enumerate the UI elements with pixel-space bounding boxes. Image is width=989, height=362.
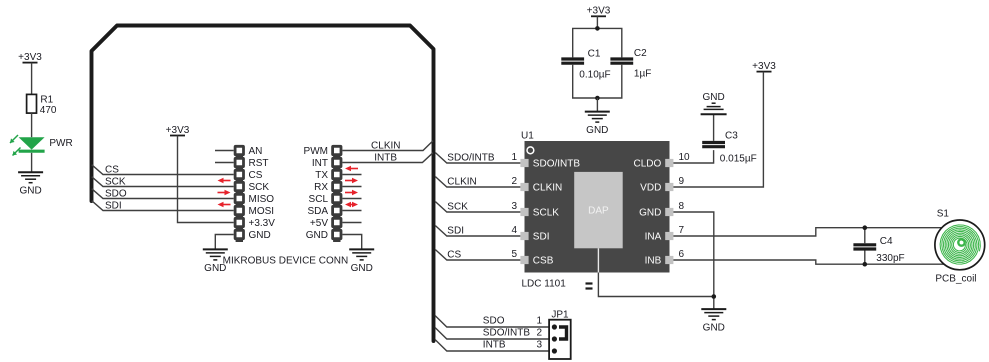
svg-text:RX: RX [314, 182, 328, 193]
stub wire (right header) [342, 174, 361, 176]
wire C3 to flipped ground [713, 114, 715, 141]
svg-text:SCK: SCK [105, 176, 126, 187]
ground (decoupling) [585, 112, 610, 137]
svg-text:JP1: JP1 [551, 310, 569, 321]
svg-text:S1: S1 [937, 209, 950, 220]
svg-text:GND: GND [351, 263, 373, 274]
svg-text:+3V3: +3V3 [166, 125, 190, 136]
svg-text:GND: GND [702, 92, 724, 103]
svg-text:470: 470 [40, 105, 57, 116]
svg-text:INT: INT [312, 158, 328, 169]
svg-text:SCLK: SCLK [533, 208, 559, 219]
wire rail to ground [596, 98, 598, 112]
svg-text:SDO: SDO [483, 316, 505, 327]
wire SDO/INTB (bus to U1) [435, 153, 520, 163]
junction (top rail) [595, 26, 600, 31]
svg-text:CSB: CSB [533, 256, 554, 267]
wire CS (bus to U1) [435, 250, 520, 260]
ground (right header) [349, 249, 374, 274]
junction (DAP/GND) [712, 294, 717, 299]
svg-text:CLKIN: CLKIN [447, 177, 476, 188]
svg-text:1: 1 [511, 152, 517, 163]
svg-text:SDO/INTB: SDO/INTB [533, 159, 581, 170]
U1 right pin names [634, 159, 662, 267]
pin numbers 1-5 [511, 152, 517, 260]
svg-text:INB: INB [645, 256, 662, 267]
svg-text:CS: CS [249, 170, 263, 181]
svg-text:C2: C2 [634, 48, 647, 59]
svg-text:R1: R1 [40, 95, 53, 106]
svg-text:GND: GND [306, 230, 328, 241]
mikrobus right header connector [331, 145, 342, 242]
wire bottom rail C1 C2 [573, 65, 622, 98]
svg-text:TX: TX [315, 170, 328, 181]
left header pin labels [249, 146, 276, 241]
+3V3 power (decoupling) [587, 6, 611, 17]
bus outline (thick board bus) [92, 26, 434, 342]
right header pin labels [304, 146, 329, 241]
ground (LED branch) [18, 172, 43, 197]
red direction arrows (left header) [218, 178, 231, 184]
wire +3V3 to VDD pin9 [673, 72, 763, 187]
svg-text:VDD: VDD [640, 183, 661, 194]
svg-text:GND: GND [639, 208, 661, 219]
svg-text:DAP: DAP [588, 206, 609, 217]
jumper JP1 [549, 310, 571, 360]
svg-text:1µF: 1µF [634, 69, 651, 80]
svg-text:330pF: 330pF [876, 253, 904, 264]
wire +3V3 to +3.3V pin [178, 136, 234, 223]
svg-text:INA: INA [645, 232, 662, 243]
capacitor C2 1uF [610, 48, 651, 80]
svg-text:8: 8 [679, 201, 685, 212]
svg-text:+3V3: +3V3 [752, 61, 776, 72]
wire C4 bottom stub [864, 250, 866, 264]
stub wire RST [215, 162, 234, 164]
JP1 pin numbers [536, 316, 542, 351]
svg-text:SDO/INTB: SDO/INTB [483, 328, 531, 339]
DAP pad [574, 172, 623, 248]
red direction arrows (right header) [345, 166, 358, 172]
op IC U1 LDC1101 body [521, 131, 670, 273]
svg-text:2: 2 [511, 176, 517, 187]
svg-text:GND: GND [586, 125, 608, 136]
wire CLDO pin10 to C3 [673, 150, 713, 163]
svg-text:+5V: +5V [310, 218, 328, 229]
wire SCK (bus to U1) [435, 202, 520, 212]
svg-text:SCK: SCK [249, 182, 270, 193]
+3V3 power (LED branch) [18, 52, 42, 63]
capacitor C1 0.10uF [561, 48, 610, 80]
svg-text:MIKROBUS DEVICE CONN: MIKROBUS DEVICE CONN [223, 255, 349, 266]
svg-text:GND: GND [703, 323, 725, 334]
svg-text:PWM: PWM [304, 146, 328, 157]
svg-text:SCK: SCK [447, 202, 468, 213]
wire GND pin8 down to ground [673, 212, 713, 309]
svg-text:SCL: SCL [309, 194, 329, 205]
wire DAP to ground net [598, 273, 713, 297]
svg-text:1: 1 [536, 316, 542, 327]
wire SCK (bus to left header) [92, 177, 234, 187]
svg-text:INTB: INTB [483, 340, 506, 351]
ground (left header) [203, 249, 228, 274]
stub wire (right header) [342, 186, 361, 188]
svg-text:0.10µF: 0.10µF [579, 69, 610, 80]
wire SDO/INTB (bus to JP1) [435, 328, 554, 340]
svg-text:CLKIN: CLKIN [533, 183, 562, 194]
svg-text:GND: GND [19, 186, 41, 197]
svg-text:LDC 1101: LDC 1101 [522, 278, 567, 289]
wire right header GND pin to ground [342, 235, 361, 250]
wire left header GND pin to ground [215, 235, 233, 250]
LED PWR (green) [10, 135, 73, 156]
svg-text:9: 9 [679, 176, 685, 187]
svg-text:SDO/INTB: SDO/INTB [447, 153, 495, 164]
svg-text:C1: C1 [588, 48, 601, 59]
wire top rail C1 C2 [573, 28, 622, 57]
svg-text:INTB: INTB [374, 152, 397, 163]
svg-text:5: 5 [511, 249, 517, 260]
capacitor C4 330pF [853, 236, 904, 264]
U1 left pin pads [520, 159, 528, 264]
+3V3 power (VDD) [752, 61, 776, 72]
stub wire (right header) [342, 222, 361, 224]
svg-text:RST: RST [249, 158, 269, 169]
wire SDI (bus to U1) [435, 226, 520, 236]
wire +3V3 to R1 [31, 63, 33, 95]
junction (C4 top) [863, 225, 868, 230]
wire INTB (INT pin to bus) [342, 153, 433, 163]
resistor R1 470 [27, 94, 57, 116]
svg-text:CS: CS [105, 164, 119, 175]
svg-text:+3.3V: +3.3V [249, 218, 276, 229]
wire INA pin7 to coil [673, 228, 941, 236]
wire R1 to LED [31, 113, 33, 137]
coil S1 PCB_coil [935, 209, 985, 285]
svg-text:SDI: SDI [533, 232, 550, 243]
svg-text:10: 10 [679, 152, 691, 163]
wire SDI (bus to left header) [92, 201, 234, 211]
wire INB pin6 to coil [673, 260, 944, 264]
svg-text:7: 7 [679, 225, 685, 236]
pin 1 indicator dot [527, 147, 534, 154]
wire LED to ground [31, 153, 33, 172]
+3V3 power (header) [166, 125, 190, 136]
svg-text:CLDO: CLDO [634, 159, 662, 170]
svg-text:+3V3: +3V3 [587, 6, 611, 17]
net-tie marks [586, 284, 593, 289]
ground (C3, flipped) [701, 92, 727, 115]
wire INTB (bus to JP1) [435, 340, 554, 352]
wire CLKIN (PWM pin to bus) [342, 141, 433, 151]
stub wire (right header) [342, 198, 361, 200]
ground (U1) [701, 309, 726, 334]
svg-text:SDO: SDO [105, 188, 127, 199]
wire DAP inside IC (light) [597, 248, 599, 272]
svg-text:4: 4 [511, 225, 517, 236]
svg-text:C3: C3 [725, 131, 738, 142]
svg-text:+3V3: +3V3 [18, 52, 42, 63]
svg-text:AN: AN [249, 146, 263, 157]
wire CLKIN (bus to U1) [435, 177, 520, 187]
wire SDO (bus to JP1) [435, 316, 554, 328]
wire C4 top stub [864, 228, 866, 244]
svg-text:CS: CS [447, 250, 461, 261]
svg-text:MOSI: MOSI [249, 206, 275, 217]
svg-text:U1: U1 [521, 131, 534, 142]
svg-text:C4: C4 [880, 236, 893, 247]
wire CS (bus to left header) [92, 165, 234, 175]
svg-text:PWR: PWR [49, 138, 72, 149]
capacitor C3 0.015uF [702, 131, 757, 165]
svg-text:MISO: MISO [249, 194, 275, 205]
svg-text:PCB_coil: PCB_coil [935, 274, 976, 285]
wire SDO (bus to left header) [92, 189, 234, 199]
svg-text:0.015µF: 0.015µF [720, 154, 757, 165]
svg-text:6: 6 [679, 249, 685, 260]
stub wire AN [215, 150, 234, 152]
svg-text:2: 2 [536, 328, 542, 339]
svg-text:3: 3 [536, 340, 542, 351]
svg-text:GND: GND [249, 230, 271, 241]
junction (bottom rail) [595, 96, 600, 101]
pin numbers 6-10 [679, 152, 691, 260]
svg-text:SDI: SDI [105, 200, 122, 211]
wire +3V3 to rail [596, 16, 598, 28]
mikrobus left header connector [234, 145, 245, 242]
junction (C4 bottom) [863, 262, 868, 267]
U1 left pin names [533, 159, 581, 267]
svg-text:3: 3 [511, 201, 517, 212]
svg-text:SDA: SDA [307, 206, 328, 217]
svg-text:CLKIN: CLKIN [371, 140, 400, 151]
svg-text:SDI: SDI [447, 226, 464, 237]
stub wire (right header) [342, 210, 361, 212]
U1 right pin pads [665, 159, 673, 264]
